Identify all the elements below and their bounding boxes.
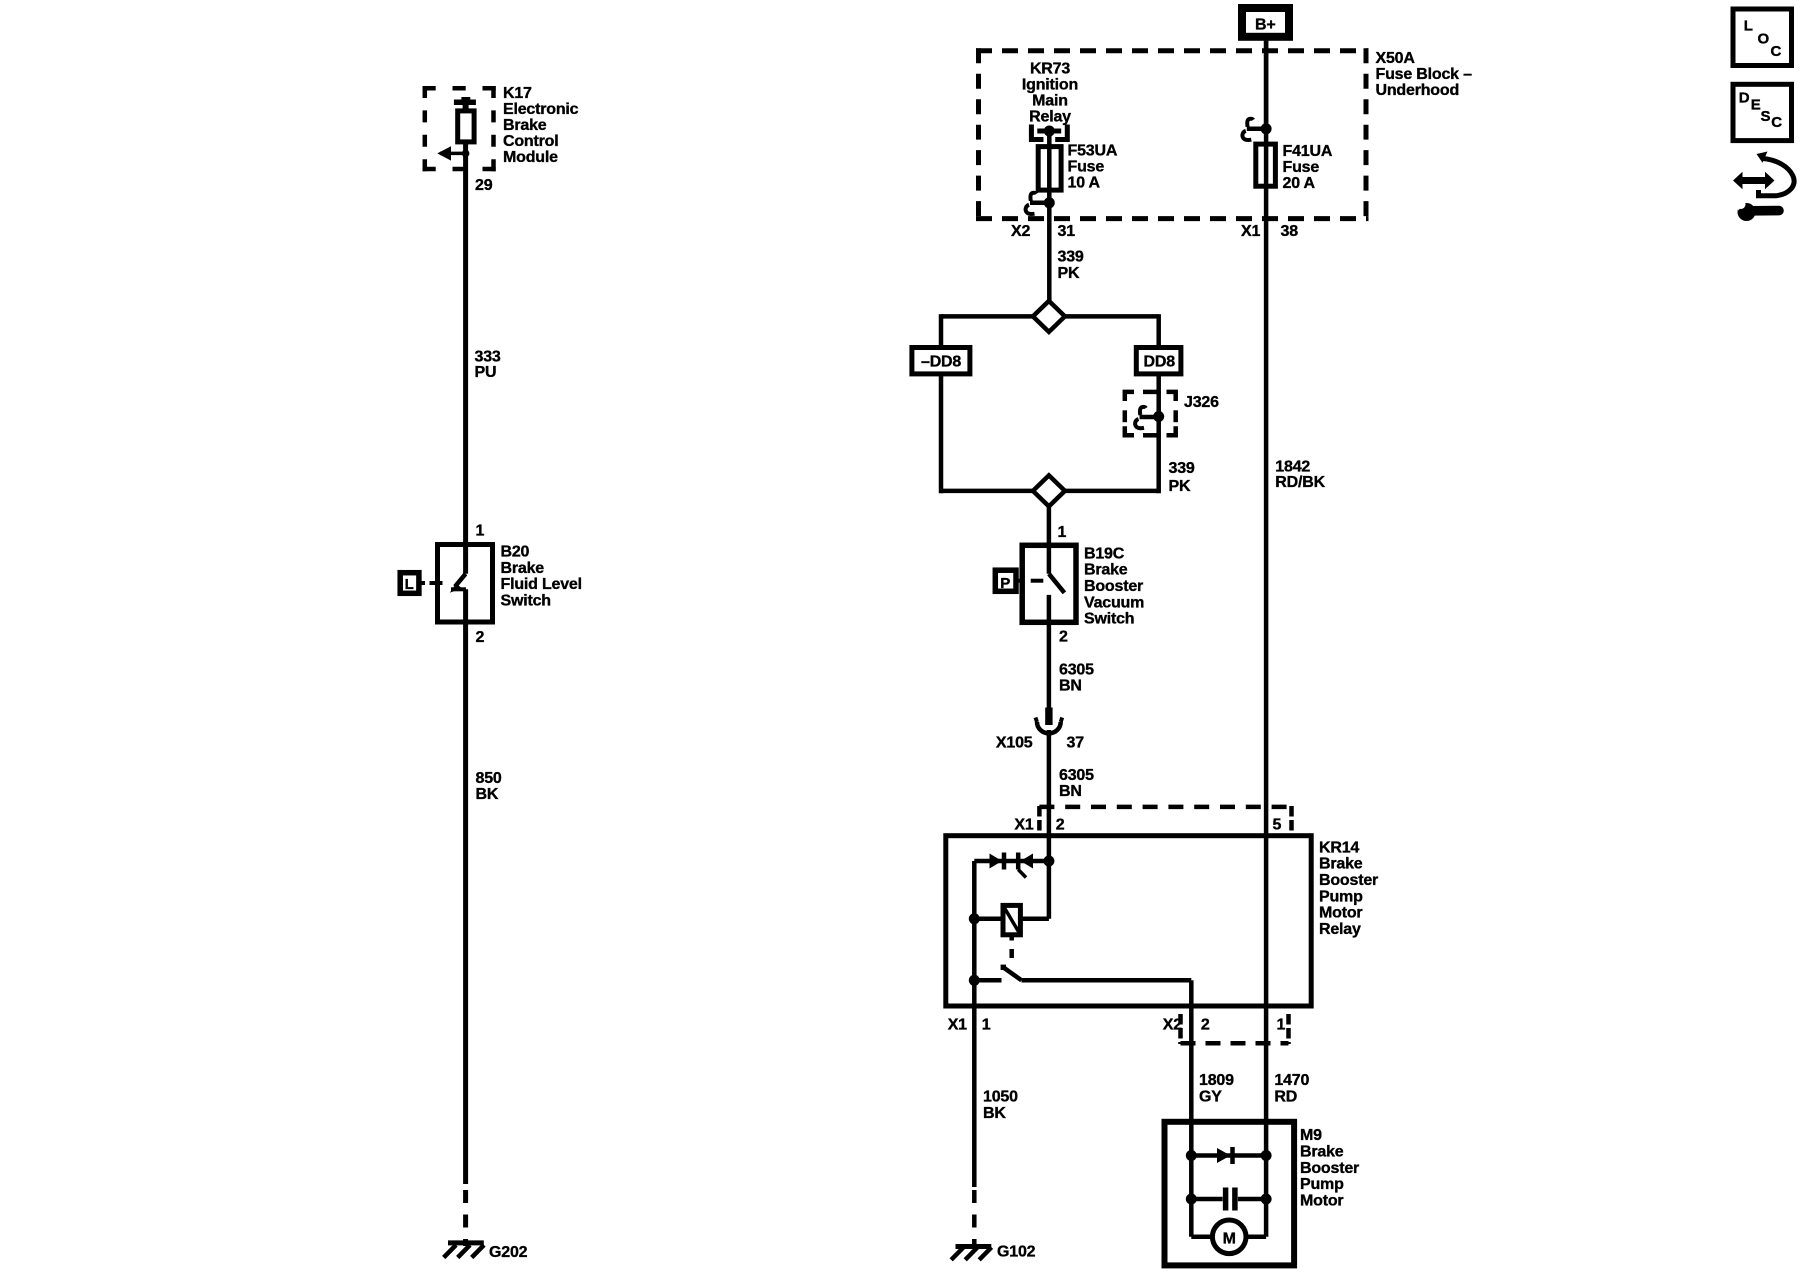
clip connection inside J326 [1135, 407, 1164, 428]
svg-text:RD: RD [1274, 1089, 1297, 1106]
label 333 PU [475, 349, 501, 382]
node -DD8 box [912, 348, 970, 374]
svg-text:1: 1 [1058, 524, 1067, 541]
svg-text:C: C [1771, 43, 1782, 60]
svg-text:Switch: Switch [501, 592, 551, 609]
inline connector X105 terminal 37 [1036, 708, 1063, 734]
svg-text:P: P [1000, 575, 1010, 592]
wire KR73 to fuse F53UA to X2-31 [1047, 131, 1052, 301]
svg-text:Motor: Motor [1319, 905, 1362, 922]
svg-text:Underhood: Underhood [1376, 82, 1460, 99]
svg-text:BN: BN [1059, 678, 1082, 695]
motor M9 box [1165, 1122, 1295, 1266]
switch B19C box [1022, 545, 1076, 622]
fuse F41UA 20 A [1256, 144, 1276, 186]
label 6305 BN upper [1059, 661, 1094, 694]
svg-text:2: 2 [1201, 1017, 1210, 1034]
svg-text:F53UA: F53UA [1068, 143, 1118, 160]
svg-text:1: 1 [1277, 1017, 1286, 1034]
label X50A Fuse Block - Underhood [1376, 50, 1473, 99]
svg-text:Fluid Level: Fluid Level [501, 576, 582, 593]
connector bracket X1 top of KR14 (dashed) [1039, 806, 1292, 832]
B19C switch blade [1049, 574, 1065, 593]
svg-text:B20: B20 [501, 544, 530, 561]
label B19C Brake Booster Vacuum Switch [1084, 545, 1144, 627]
connector J326 dashed box [1125, 392, 1176, 435]
splice diamond upper [1033, 301, 1065, 332]
svg-text:Booster: Booster [1084, 578, 1143, 595]
M9 internal right wire [1264, 1122, 1269, 1237]
svg-text:20 A: 20 A [1283, 175, 1316, 192]
svg-text:BK: BK [476, 786, 499, 803]
clip connection above F41UA [1242, 119, 1271, 140]
svg-text:Relay: Relay [1029, 108, 1071, 125]
ground G202 [444, 1243, 528, 1261]
wire diamond to DD8 branch [1065, 314, 1159, 347]
node DD8 box [1136, 348, 1181, 374]
label M9 Brake Booster Pump Motor [1300, 1127, 1359, 1209]
KR14 relay coil [974, 861, 1049, 935]
svg-text:PU: PU [475, 364, 497, 381]
svg-text:Brake: Brake [1300, 1144, 1344, 1161]
wire -DD8 down to lower splice [941, 374, 1033, 493]
svg-text:M: M [1223, 1231, 1236, 1248]
labels X1 2 5 top of KR14 [1014, 816, 1281, 833]
labels X2 2 1 bottom right of KR14 [1163, 1017, 1286, 1034]
label 6305 BN lower [1059, 767, 1094, 800]
module K17 dashed box [423, 86, 496, 171]
relay KR14 box [946, 836, 1311, 1006]
svg-text:X1: X1 [1014, 816, 1033, 833]
battery terminal B+ [1242, 8, 1289, 37]
svg-text:1050: 1050 [983, 1088, 1018, 1105]
svg-text:J326: J326 [1184, 394, 1219, 411]
wire 1809 GY from KR14 X2-2 to M9 [1189, 1006, 1194, 1122]
wire 333 PU from K17 pin 29 to B20 pin 1 [463, 142, 468, 574]
svg-text:RD/BK: RD/BK [1275, 474, 1325, 491]
svg-text:1809: 1809 [1199, 1072, 1234, 1089]
KR14 diode D2 [1018, 853, 1033, 878]
wire 6305 BN from B19C pin 2 to X105 [1047, 595, 1052, 708]
svg-text:D: D [1739, 90, 1750, 107]
icon wrench [1733, 196, 1779, 222]
svg-text:10 A: 10 A [1068, 175, 1101, 192]
labels X105 37 [996, 735, 1084, 752]
svg-text:Booster: Booster [1300, 1160, 1359, 1177]
svg-text:29: 29 [475, 177, 493, 194]
svg-text:37: 37 [1067, 735, 1085, 752]
label KR73 Ignition Main Relay [1022, 60, 1078, 125]
label 339 PK right branch [1169, 460, 1195, 495]
switch B20 box [438, 545, 493, 623]
svg-text:PK: PK [1169, 478, 1191, 495]
svg-text:L: L [405, 576, 414, 593]
wire lower splice to B19C pin 1 [1047, 506, 1052, 573]
label F41UA Fuse 20 A [1283, 143, 1333, 192]
svg-text:Fuse: Fuse [1283, 159, 1320, 176]
svg-text:1: 1 [982, 1017, 991, 1034]
svg-text:B+: B+ [1255, 17, 1276, 34]
svg-text:G202: G202 [489, 1244, 528, 1261]
svg-text:6305: 6305 [1059, 661, 1094, 678]
connector bracket X2 bottom of KR14 (dashed) [1181, 1014, 1289, 1044]
M9 capacitor rung [1186, 1188, 1272, 1211]
svg-text:38: 38 [1281, 223, 1299, 240]
svg-text:Vacuum: Vacuum [1084, 594, 1144, 611]
svg-text:339: 339 [1058, 248, 1084, 265]
icon loop arrow [1757, 152, 1795, 196]
svg-text:Motor: Motor [1300, 1192, 1343, 1209]
svg-text:BN: BN [1059, 783, 1082, 800]
svg-text:X1: X1 [948, 1017, 967, 1034]
icon double arrow [1733, 172, 1775, 189]
wire diamond to -DD8 branch [941, 314, 1033, 347]
svg-text:5: 5 [1273, 816, 1282, 833]
svg-text:2: 2 [1059, 629, 1068, 646]
clip connection under F53UA [1026, 193, 1055, 214]
svg-text:Pump: Pump [1300, 1176, 1344, 1193]
K17 internal resistor element [454, 97, 476, 142]
svg-text:–DD8: –DD8 [921, 353, 961, 370]
wire B+ to fuse block [1264, 41, 1269, 129]
svg-text:B19C: B19C [1084, 545, 1125, 562]
svg-text:X2: X2 [1011, 223, 1030, 240]
svg-text:S: S [1761, 108, 1771, 125]
label KR14 Brake Booster Pump Motor Relay [1319, 839, 1378, 938]
svg-text:2: 2 [476, 629, 485, 646]
svg-text:Fuse: Fuse [1068, 159, 1105, 176]
label 339 PK upper [1058, 248, 1084, 282]
svg-text:X105: X105 [996, 735, 1033, 752]
wire 1842 RD/BK and 1470 RD (right vertical) [1264, 41, 1269, 1122]
svg-text:F41UA: F41UA [1283, 143, 1333, 160]
ground G102 [951, 1244, 1035, 1261]
connector labels X1 38 [1241, 223, 1298, 240]
svg-text:L: L [1744, 18, 1753, 35]
svg-text:1842: 1842 [1275, 458, 1310, 475]
svg-text:PK: PK [1058, 265, 1080, 282]
KR14 diode rung [974, 856, 1054, 867]
dashed link P to B19C blade [1016, 579, 1043, 583]
icon LOC box [1733, 9, 1792, 66]
svg-text:6305: 6305 [1059, 767, 1094, 784]
svg-text:E: E [1751, 97, 1761, 114]
K17 internal arrow [437, 146, 469, 160]
wire DD8 down through J326 to lower splice [1065, 374, 1159, 493]
svg-text:Fuse Block –: Fuse Block – [1376, 66, 1473, 83]
svg-text:31: 31 [1058, 223, 1076, 240]
svg-text:Brake: Brake [501, 560, 545, 577]
svg-text:Control: Control [503, 133, 558, 150]
svg-text:X1: X1 [1241, 223, 1260, 240]
wire 850 BK from B20 pin 2 to G202 [463, 589, 468, 1246]
svg-text:BK: BK [983, 1105, 1006, 1122]
label 1050 BK [983, 1088, 1018, 1122]
dashed link L to B20 blade [419, 581, 443, 585]
svg-text:1470: 1470 [1274, 1072, 1309, 1089]
svg-text:DD8: DD8 [1144, 353, 1176, 370]
svg-text:C: C [1771, 114, 1782, 131]
svg-text:G102: G102 [997, 1244, 1036, 1261]
svg-text:Switch: Switch [1084, 611, 1134, 628]
label 1842 RD/BK [1275, 458, 1325, 491]
relay KR73 contact symbol [1031, 125, 1067, 140]
label B20 Brake Fluid Level Switch [501, 544, 582, 610]
svg-text:Relay: Relay [1319, 921, 1361, 938]
svg-text:O: O [1758, 30, 1770, 47]
KR14 switch contact [974, 965, 1191, 1006]
svg-text:Brake: Brake [1084, 562, 1128, 579]
fuse F53UA 10 A [1038, 147, 1061, 191]
svg-text:GY: GY [1199, 1089, 1222, 1106]
label 1809 GY [1199, 1072, 1234, 1105]
svg-text:Brake: Brake [503, 117, 547, 134]
B20 switch blade with arrowhead [450, 574, 466, 593]
svg-text:1: 1 [476, 523, 485, 540]
svg-text:Booster: Booster [1319, 872, 1378, 889]
connector labels X2 31 [1011, 223, 1075, 240]
svg-text:KR73: KR73 [1030, 60, 1070, 77]
svg-text:Ignition: Ignition [1022, 76, 1078, 93]
splice diamond lower [1033, 475, 1065, 506]
labels X1 1 bottom left of KR14 [948, 1017, 991, 1034]
icon DESC box [1733, 84, 1792, 140]
svg-text:Module: Module [503, 149, 558, 166]
P symbol box of B19C [995, 570, 1016, 592]
svg-text:850: 850 [476, 770, 502, 787]
svg-text:X50A: X50A [1376, 50, 1416, 67]
M9 internal left wire [1189, 1122, 1194, 1237]
KR14 coil actuation dashed link [1009, 935, 1014, 958]
svg-text:333: 333 [475, 349, 501, 366]
svg-text:2: 2 [1056, 816, 1065, 833]
label 1470 RD [1274, 1072, 1309, 1105]
label 850 BK [476, 770, 502, 803]
KR14 diode D1 [990, 853, 1005, 870]
KR14 left vertical wire [969, 861, 980, 1006]
wire 1050 BK from KR14 X1-1 to G102 [972, 1006, 977, 1249]
svg-text:K17: K17 [503, 85, 532, 102]
label F53UA Fuse 10 A [1068, 143, 1118, 192]
svg-text:KR14: KR14 [1319, 839, 1359, 856]
svg-text:Electronic: Electronic [503, 101, 579, 118]
svg-text:Brake: Brake [1319, 856, 1363, 873]
fuse block X50A dashed box [976, 48, 1369, 221]
wire 6305 BN from X105 to KR14 [1047, 730, 1052, 861]
M9 diode rung [1186, 1147, 1272, 1164]
M9 motor armature [1191, 1220, 1266, 1254]
L symbol box of B20 [400, 573, 419, 594]
svg-text:Pump: Pump [1319, 888, 1363, 905]
svg-text:339: 339 [1169, 460, 1195, 477]
label K17 Electronic Brake Control Module [503, 85, 579, 166]
svg-text:M9: M9 [1300, 1127, 1322, 1144]
svg-text:Main: Main [1032, 92, 1068, 109]
